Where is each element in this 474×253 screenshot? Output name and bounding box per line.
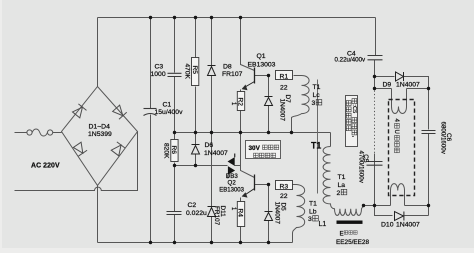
label E core (340, 231, 358, 238)
bridge diamond (62, 87, 138, 186)
wire Q1 base to node (255, 75, 269, 77)
wire R4 to bottom rail (240, 227, 242, 243)
coil T1 La vertical + L1 horizontal (323, 147, 363, 216)
transistor Q2 EB13003 (254, 175, 256, 191)
wire bridge bottom column (97, 186, 99, 243)
wire D9 line left (375, 76, 395, 78)
wire AC live w/ fuse leads (15, 132, 27, 134)
note box C5 (rotated) (346, 96, 358, 147)
svg-text:T1: T1 (313, 84, 321, 91)
svg-text:La: La (338, 182, 346, 189)
svg-text:D1~D4: D1~D4 (89, 124, 111, 131)
svg-text:15u/400v: 15u/400v (155, 109, 184, 116)
wire D5 to bottom rail (268, 220, 270, 243)
svg-text:470K: 470K (184, 64, 191, 80)
Q2 emitter arrow (242, 192, 248, 197)
diode D6 1N4007 (192, 145, 200, 155)
wire D10 branch (375, 206, 393, 216)
coil T1 Lc (292, 76, 310, 133)
diac DB3 (227, 154, 235, 179)
svg-text:FR107: FR107 (213, 206, 220, 226)
L1 core bar (337, 221, 363, 224)
svg-text:Lb: Lb (309, 209, 317, 216)
Q1 emitter arrow (242, 85, 248, 91)
svg-text:1N4007: 1N4007 (273, 202, 280, 225)
wire R5 column upper (195, 18, 197, 58)
svg-text:820K: 820K (163, 143, 170, 159)
diode D7 1N4007 (265, 97, 273, 106)
wire lamp bottom node stubs (375, 205, 429, 207)
diode D5 1N4007 (265, 212, 273, 221)
diode D8 FR107 (208, 66, 216, 76)
svg-text:R6: R6 (170, 146, 177, 155)
capacitor C4 (368, 56, 383, 60)
svg-text:EB13003: EB13003 (248, 62, 276, 69)
capacitor C5 (367, 162, 383, 166)
wire R2 to midline (240, 111, 242, 133)
wire C2 to bottom rail (174, 215, 176, 243)
svg-text:Lc: Lc (313, 92, 321, 99)
svg-text:4700/1600v: 4700/1600v (357, 151, 364, 184)
box 30V note (246, 141, 281, 159)
fuse squiggle (32, 129, 47, 136)
fuse circles (27, 130, 53, 135)
svg-text:T1: T1 (309, 201, 317, 208)
transformer T1 core line (317, 80, 319, 194)
wire fuse to bridge (53, 132, 62, 134)
wire top rail (98, 17, 376, 19)
lamp filament bottom with leads (391, 184, 405, 206)
wire bridge top column (97, 18, 99, 87)
resistor R6 820K (163, 140, 179, 162)
bridge diode D4 upper-right (112, 105, 126, 119)
svg-text:EB13003: EB13003 (219, 188, 244, 194)
diode D11 FR107 (208, 207, 216, 217)
capacitor C3 (168, 73, 182, 76)
wire C6 column (428, 89, 430, 130)
svg-text:D8: D8 (223, 64, 232, 71)
svg-text:C1: C1 (163, 102, 172, 109)
svg-text:D9: D9 (383, 82, 392, 89)
svg-text:6800/1600v: 6800/1600v (439, 122, 446, 155)
svg-text:D10: D10 (381, 222, 394, 229)
coil T1 Lb (293, 185, 305, 243)
svg-text:3: 3 (312, 100, 316, 107)
wire C5 solid lower part (374, 154, 376, 206)
svg-text:R1: R1 (280, 74, 289, 81)
svg-text:EE25/EE28: EE25/EE28 (336, 239, 369, 246)
wire lamp bottom left node (364, 205, 375, 207)
svg-text:4: 4 (393, 119, 399, 123)
text 4 U lamps (rotated) (393, 119, 399, 153)
svg-text:C3: C3 (155, 64, 164, 71)
wire C3 column upper (174, 18, 176, 73)
wire Q2 collector column (241, 133, 255, 178)
svg-text:U: U (393, 130, 399, 134)
resistor R3 22 (276, 181, 293, 201)
svg-text:D6: D6 (205, 142, 214, 149)
svg-text:Q1: Q1 (257, 53, 266, 60)
svg-text:2: 2 (337, 190, 341, 197)
wire lamp top line left (375, 88, 392, 90)
wire C6 bottom column (428, 134, 430, 216)
wire R5 to midline (195, 87, 197, 145)
wire midline to La (330, 133, 332, 147)
bridge diode D2 lower-left (73, 142, 87, 156)
wire DB3 to Q2 collector column (235, 165, 241, 167)
svg-text:22: 22 (280, 193, 288, 200)
svg-text:R5: R5 (191, 66, 198, 75)
svg-text:3: 3 (308, 216, 312, 223)
bridge diode D1 upper-left (72, 104, 86, 118)
diode D9 1N4007 (396, 72, 404, 81)
svg-text:Q2: Q2 (228, 179, 237, 186)
wire AC neutral with hop (15, 132, 138, 191)
svg-text:AC 220V: AC 220V (31, 163, 60, 170)
capacitor C1 (15u/400v electrolytic) (144, 109, 157, 116)
svg-text:0.22u/400v: 0.22u/400v (335, 56, 367, 63)
dashed lamp box (389, 100, 415, 196)
diode D10 1N4007 (395, 212, 404, 221)
wire D6 top (195, 153, 197, 166)
svg-text:T1: T1 (338, 174, 346, 181)
wire Q1 emitter to R2 (240, 90, 242, 92)
wire R6 to trigger (174, 163, 176, 212)
wire lamp top line right (407, 88, 429, 90)
wire C1 column upper (150, 18, 152, 109)
resistor R5 470K (184, 58, 199, 86)
wire C5 dotted upper part (374, 91, 376, 154)
resistor R2 (230, 92, 245, 111)
wire D8 to midline (211, 76, 213, 207)
wire D10 right (405, 215, 429, 217)
wire C3 to midline (174, 77, 176, 140)
wire Q2 base to node (255, 184, 269, 186)
lamp filament top with leads (392, 89, 407, 114)
svg-text:R4: R4 (236, 209, 243, 218)
svg-text:FR107: FR107 (222, 71, 243, 78)
wire D11 to bottom rail (211, 215, 213, 243)
text 30V zuoyoushi (249, 145, 279, 158)
svg-text:1000: 1000 (151, 71, 166, 78)
svg-text:30V: 30V (249, 145, 261, 152)
svg-text:1N5399: 1N5399 (88, 131, 112, 138)
svg-text:1: 1 (230, 207, 236, 211)
wire Q1 collector column (241, 18, 255, 71)
wire D7 hang (268, 76, 270, 97)
capacitor C2 (167, 212, 182, 215)
wire D9 line right (404, 77, 429, 89)
wire Q2 emitter to R4 (240, 198, 242, 202)
resistor R1 22 (276, 71, 293, 92)
svg-text::C5: :C5 (351, 104, 357, 113)
wire D8 column upper (211, 18, 213, 66)
transistor Q1 EB13003 (254, 68, 256, 84)
svg-text:1: 1 (230, 102, 236, 106)
resistor R4 (230, 202, 245, 227)
wire D5 hang (268, 185, 270, 212)
svg-text:C2: C2 (188, 202, 197, 209)
wire bottom rail (98, 242, 293, 244)
svg-text:L1: L1 (319, 221, 327, 228)
svg-text:1N4007: 1N4007 (396, 222, 420, 229)
wire D7 bottom to midline (268, 106, 270, 133)
svg-text:1N4007: 1N4007 (204, 150, 228, 157)
svg-text:R3: R3 (280, 184, 289, 191)
svg-text:1N4007: 1N4007 (278, 99, 285, 122)
wire trigger line (175, 165, 228, 167)
svg-text:T1: T1 (311, 140, 321, 150)
wire C4 below to node (374, 60, 376, 89)
wire midline (175, 132, 331, 134)
svg-text:R2: R2 (236, 98, 243, 107)
svg-text:0.022u: 0.022u (186, 210, 207, 217)
svg-text:1N4007: 1N4007 (396, 82, 420, 89)
wire C4 column (375, 18, 377, 56)
wire C1 column lower (150, 115, 152, 243)
bridge diode D3 lower-right (111, 142, 125, 156)
capacitor C6 (422, 131, 436, 134)
svg-text:E: E (340, 231, 344, 238)
svg-text:22: 22 (280, 85, 288, 92)
